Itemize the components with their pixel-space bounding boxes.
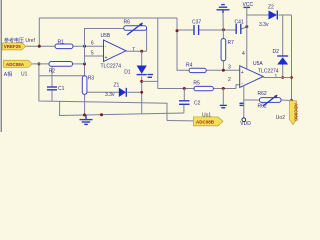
svg-text:R1: R1 [58, 40, 65, 46]
wire pot R62 line [244, 99, 260, 101]
pin marks near U5B output rail [148, 74, 154, 76]
node cap line right junction [245, 25, 248, 28]
wire R7 bottom stub [222, 61, 224, 71]
pin 11 marks [240, 102, 245, 104]
node VREF junction [38, 45, 41, 48]
wire Z1 line [85, 91, 120, 93]
wire VDD stem [243, 86, 245, 118]
svg-text:VDD: VDD [240, 121, 251, 127]
wire C2 top stub [183, 89, 185, 101]
wire Uo1 line [167, 120, 194, 122]
capacitor C1 [47, 86, 57, 88]
wire vref line to R1 and pin6 [26, 45, 55, 47]
resistor R5 [194, 86, 213, 90]
node bus junction right of ground [100, 113, 103, 116]
svg-text:A相: A相 [4, 71, 12, 78]
svg-text:R7: R7 [228, 40, 235, 46]
svg-text:R6: R6 [124, 19, 131, 25]
port VREF25 tag [3, 43, 27, 50]
node R3 ground junction [83, 114, 86, 117]
node right rail bottom junction [290, 99, 293, 102]
resistor R2 [49, 62, 73, 67]
wire Z2 rail [247, 14, 269, 16]
node pin2 junction [222, 87, 225, 90]
resistor R1 [55, 44, 73, 49]
port ADC08A tag [4, 60, 33, 67]
wire pin5 jog [85, 56, 104, 64]
svg-text:3.3v: 3.3v [259, 22, 269, 28]
wire cap line [177, 29, 194, 31]
svg-text:R4: R4 [186, 63, 193, 69]
wire top bus y18 [39, 18, 177, 46]
svg-text:C1: C1 [58, 86, 65, 92]
svg-text:VREF25: VREF25 [4, 44, 22, 49]
wire feedback left leg [85, 29, 125, 76]
diode D1 [137, 66, 147, 74]
svg-text:R2: R2 [49, 68, 56, 74]
svg-text:R62: R62 [258, 91, 267, 97]
svg-text:7: 7 [132, 47, 135, 53]
svg-text:4: 4 [242, 51, 245, 57]
svg-text:3.3v: 3.3v [105, 92, 115, 98]
ground top inverted symbol [217, 5, 230, 13]
zener Z1 [119, 88, 126, 97]
svg-text:ADC08A: ADC08A [6, 62, 25, 67]
potentiometer R62 [260, 98, 282, 103]
wire output U5B [126, 50, 147, 52]
node tag2 line junction [37, 62, 40, 65]
port Uo1 tag [194, 117, 224, 126]
svg-text:2: 2 [228, 77, 231, 83]
resistor R7 [221, 39, 226, 61]
port Uo2 tag vertical [290, 101, 297, 125]
wire R3 bottom stub [84, 94, 86, 115]
svg-text:D1: D1 [124, 70, 131, 76]
node Z1 D1 junction [140, 91, 143, 94]
node output D1 junction [140, 50, 143, 53]
wire pin3 line [206, 69, 240, 71]
svg-text:3: 3 [228, 65, 231, 71]
node cap line mid junction [222, 28, 225, 31]
svg-text:6: 6 [91, 40, 94, 46]
potentiometer R6 [124, 26, 147, 30]
wire R2 line [33, 63, 50, 65]
sheet border left [0, 0, 2, 132]
node R5 C2 junction [183, 87, 186, 90]
resistor R3 [82, 76, 87, 94]
wire C1 stub [51, 65, 53, 87]
wire C2 bottom stub to bus B [183, 105, 185, 113]
capacitor C37 [193, 25, 195, 35]
wire pin2 node stub down [222, 89, 224, 105]
ground main symbol [80, 115, 93, 124]
op-amp U5B [104, 40, 127, 62]
svg-text:C2: C2 [194, 101, 201, 107]
svg-text:C41: C41 [235, 20, 244, 26]
power VDD symbol [242, 118, 246, 122]
node D2 output junction [281, 76, 284, 79]
wire link D1 node to R45 feed vertical [142, 80, 158, 82]
svg-text:Z2: Z2 [268, 5, 274, 11]
wire VCC stem [246, 7, 248, 69]
svg-text:5: 5 [91, 50, 94, 56]
wire R5 line [158, 88, 194, 90]
node pin6 junction [83, 45, 86, 48]
capacitor C41 [235, 24, 237, 34]
svg-text:C37: C37 [192, 20, 201, 26]
node cap line left junction [176, 29, 179, 32]
svg-text:R5: R5 [193, 81, 200, 87]
node below D1 [140, 80, 143, 83]
op-amp U5A [240, 66, 264, 88]
svg-text:ADC08C: ADC08C [294, 103, 299, 122]
svg-text:Z1: Z1 [114, 83, 120, 89]
wire R3 top feed [39, 75, 85, 77]
wire top gnd stem to R7 [222, 13, 224, 39]
node pin5 junction [83, 62, 86, 65]
diode D2 [282, 15, 284, 56]
resistor R4 [189, 68, 206, 72]
node right rail output crossing [290, 76, 293, 79]
capacitor C2 [179, 100, 190, 102]
svg-text:R3: R3 [88, 76, 95, 82]
svg-text:D2: D2 [273, 49, 280, 55]
svg-text:+: + [105, 55, 108, 61]
wire R4 feed vertical [177, 18, 189, 70]
ground small under pin2 node [220, 104, 227, 106]
svg-text:Uo2: Uo2 [276, 115, 285, 121]
svg-text:U1: U1 [21, 72, 28, 78]
svg-text:ADC08B: ADC08B [196, 119, 215, 124]
wire bus A [39, 64, 167, 121]
wire pin2 jog [236, 85, 240, 89]
wire D1 branch down to Uo1 line [141, 51, 143, 65]
svg-text:U5A: U5A [253, 61, 263, 67]
svg-text:TLC2274: TLC2274 [101, 64, 122, 70]
wire right rail down [291, 15, 293, 101]
wire U5A output [263, 77, 291, 79]
svg-text:+: + [241, 70, 244, 76]
zener Z2 [269, 11, 278, 20]
svg-text:R62: R62 [258, 103, 267, 109]
wire feedback right leg [146, 29, 148, 52]
svg-text:U5B: U5B [101, 33, 111, 39]
wire bus B [60, 101, 184, 115]
node R7 pin3 junction [222, 69, 225, 72]
wire R5 feed vertical from top bus [157, 18, 159, 89]
